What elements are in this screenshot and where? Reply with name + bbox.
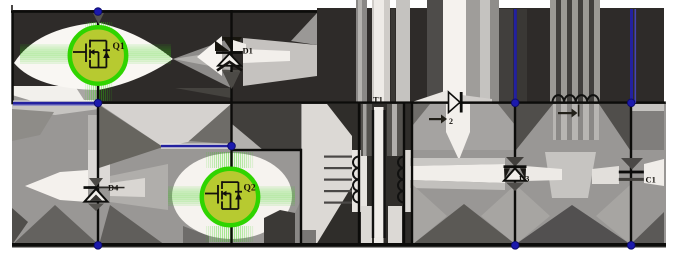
- wire: vertical x=301: [300, 149, 302, 246]
- svg-text:C1: C1: [646, 175, 656, 185]
- inductor L1: [553, 95, 599, 117]
- MOSFET Q1: [70, 27, 126, 83]
- transformer T1 primary stem: [358, 103, 360, 245]
- node: top of Q1 branch: [94, 8, 102, 16]
- diode D1: [215, 40, 253, 89]
- wire: middle rail: [97, 101, 666, 104]
- node: C1 top: [627, 99, 635, 107]
- MOSFET Q2: [202, 169, 258, 225]
- wire: vertical through C1: [630, 103, 632, 245]
- diode D4: [84, 178, 125, 211]
- wire: vertical through D1 and Q2: [230, 10, 232, 246]
- wire: vertical x=412 output cell border: [411, 103, 413, 245]
- node: Q1 source / blue input: [94, 99, 102, 107]
- wire: left border: [11, 10, 14, 104]
- blue wire: vertical x=632: [630, 9, 633, 103]
- D1 flare shading: [197, 36, 222, 76]
- output cell shading (515-631): [516, 104, 553, 150]
- capacitor C1: [619, 158, 656, 185]
- D2 flare shading: [412, 90, 448, 114]
- svg-text:T1: T1: [373, 95, 383, 105]
- svg-text:D1: D1: [243, 46, 253, 56]
- node: C1 bottom: [627, 242, 635, 250]
- transformer T1 secondary stem: [403, 103, 405, 245]
- wire: Q2 branch horizontal: [231, 149, 302, 151]
- wire: bottom rail: [12, 243, 666, 247]
- Q2 halo: [172, 153, 292, 239]
- node: Q2 gate feed: [228, 142, 236, 150]
- cell left of Q2: [99, 104, 231, 147]
- svg-text:Q1: Q1: [113, 42, 125, 52]
- wire: top rail: [11, 10, 317, 13]
- node: D3 top: [511, 99, 519, 107]
- diode D2: [429, 92, 463, 126]
- transformer T1 secondary winding: [398, 157, 404, 203]
- node: D3 bottom: [511, 242, 519, 250]
- wire: vertical through Q1 and D4: [97, 10, 99, 246]
- dark block above Q2 branch: [232, 104, 301, 150]
- diode D3: [504, 157, 530, 191]
- green glow vertical streaks at Q1 and Q2: [85, 22, 253, 242]
- blue wire: vertical x=515: [514, 9, 517, 103]
- D4 flare shading: [88, 115, 110, 150]
- svg-text:D4: D4: [108, 183, 119, 193]
- top-left cell shading around Q1: [12, 86, 97, 101]
- svg-text:D3: D3: [519, 174, 529, 184]
- transformer T1 core: [372, 110, 374, 238]
- green glow streaks over Q2 halo: [168, 187, 295, 206]
- tick at sheet corner: [11, 5, 13, 11]
- right cell shading (631-664): [631, 104, 664, 150]
- wire: vertical through D3: [514, 103, 516, 245]
- left bottom cell shading: [12, 104, 99, 115]
- svg-text:2: 2: [449, 117, 453, 126]
- output cell shading (412-515): [413, 104, 515, 150]
- transformer zone background: [302, 104, 412, 245]
- node: bottom of D4 branch: [94, 242, 102, 250]
- transformer T1 primary winding: [353, 157, 359, 203]
- blue wire: left input at y=103: [13, 101, 97, 102]
- blue wire: Q2 gate feed y=146: [161, 144, 231, 145]
- green glow streaks over Q1 lens: [20, 45, 171, 64]
- svg-text:Q2: Q2: [244, 184, 256, 194]
- top-right streak columns: [356, 0, 367, 103]
